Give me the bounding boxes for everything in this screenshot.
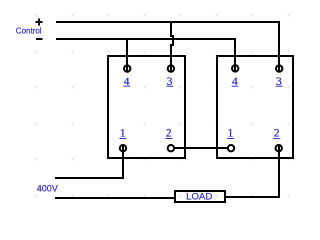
svg-text:2: 2 bbox=[166, 127, 172, 139]
svg-text:1: 1 bbox=[120, 127, 126, 139]
pin label 3 (left box) bbox=[166, 76, 173, 88]
wire: left box terminal 2 to right box terminal 1 bbox=[174, 147, 229, 149]
wire: + control line to right box terminal 3 bbox=[56, 21, 280, 72]
pin label 4 (right box) bbox=[232, 76, 239, 88]
terminal 1 left box bbox=[120, 145, 126, 151]
svg-text:2: 2 bbox=[274, 127, 280, 139]
svg-text:Control: Control bbox=[16, 27, 42, 36]
terminal 3 right box bbox=[276, 65, 282, 71]
wire: left box terminal 4 stub from - line bbox=[126, 40, 128, 73]
wire: 400V top feed to left box terminal 1 bbox=[55, 144, 124, 178]
svg-text:1: 1 bbox=[228, 127, 234, 139]
svg-text:LOAD: LOAD bbox=[186, 192, 212, 203]
terminal 2 left box bbox=[168, 145, 174, 151]
terminal 4 right box bbox=[232, 65, 238, 71]
pin label 1 (left box) bbox=[120, 127, 127, 139]
minus terminal symbol bbox=[36, 38, 43, 40]
wire: 400V bottom feed to LOAD bbox=[55, 197, 174, 199]
wire: right box terminal 2 down to LOAD bbox=[226, 144, 279, 198]
terminal 4 left box bbox=[124, 65, 130, 71]
plus terminal symbol bbox=[35, 18, 42, 25]
relay box K1 (left) bbox=[108, 56, 185, 158]
terminal 3 left box bbox=[168, 65, 174, 71]
pin label 1 (right box) bbox=[227, 127, 234, 139]
terminal 1 right box bbox=[228, 145, 234, 151]
terminal 2 right box bbox=[276, 145, 282, 151]
svg-text:400V: 400V bbox=[37, 183, 58, 193]
grid dots bbox=[36, 15, 290, 197]
load box bbox=[175, 191, 225, 202]
wire: left box terminal 3 up to + line (hop over - line) bbox=[171, 23, 173, 73]
wire: - control line to right box terminal 4 bbox=[56, 38, 236, 72]
pin label 3 (right box) bbox=[276, 76, 283, 88]
pin label 2 (left box) bbox=[166, 127, 173, 139]
pin label 2 (right box) bbox=[273, 127, 280, 139]
relay box K2 (right) bbox=[217, 56, 293, 158]
pin label 4 (left box) bbox=[123, 76, 130, 88]
